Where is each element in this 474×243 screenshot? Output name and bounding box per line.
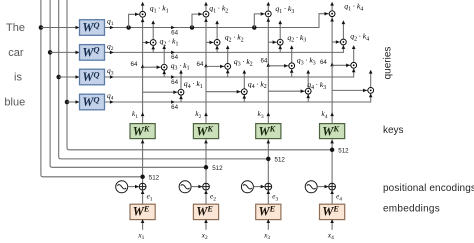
weight matrix box W^K 2 [193, 124, 218, 139]
wire output of q3·k2 upward [226, 45, 230, 63]
dot-product node q4·k1 [178, 89, 184, 95]
wire q3 stub into q3·k2 [226, 70, 230, 78]
wire output of q1·k2 upward [204, 2, 208, 11]
wire output of q2·k4 upward [342, 20, 346, 39]
positional encoding source 4 [305, 181, 317, 193]
wire q1 stub into q1·k2 [192, 12, 203, 27]
wire e4 from plus node up into W^K 4 [330, 139, 334, 183]
wire q3 stub into q3·k1 [162, 70, 166, 77]
dot-product node q4·k4 [368, 88, 374, 94]
wire k3 branch to q4·k3 [268, 89, 305, 93]
arrowhead on q3 row mid [171, 75, 175, 79]
wire q3 row input into W^Q [59, 75, 80, 79]
wire k4 branch to q4·k4 [332, 89, 367, 93]
wire output of q3·k1 upward [162, 45, 166, 64]
dot-product node q1·k1 [140, 11, 146, 17]
wire embedding bus e2 (left vertical + bend to column 2) [50, 0, 206, 167]
svg-text:64: 64 [171, 104, 178, 111]
wire positional encoding 4 into plus node [317, 185, 328, 189]
arrowhead on k1 line above W^K [141, 112, 145, 116]
svg-text:64: 64 [131, 61, 138, 68]
svg-text:64: 64 [320, 59, 327, 66]
wire q2 stub into q2·k2 [215, 46, 219, 53]
wire q4 stub into q4·k3 [306, 94, 310, 102]
positional encoding source 1 [116, 181, 128, 193]
wire x1 into W^E 1 [141, 219, 145, 230]
wire output of q1·k4 upward [330, 2, 334, 11]
svg-text:64: 64 [261, 58, 268, 65]
wire output of q2·k2 upward [215, 20, 219, 39]
wire q3 stub into q3·k3 [290, 69, 294, 77]
svg-text:blue: blue [4, 96, 25, 108]
wire embedding e1 from W^E into plus node [141, 190, 145, 204]
wire q2 stub into q2·k1 [151, 46, 155, 53]
wire output of q4·k1 upward [179, 70, 183, 89]
wire q1 stub into q1·k1 [129, 13, 140, 28]
wire k2 branch to q3·k2 [206, 65, 224, 69]
weight matrix box W^E 3 [256, 204, 281, 219]
dot-product node q2·k3 [277, 39, 283, 45]
adder node plus 2 [203, 183, 210, 190]
dot-product node q2·k4 [341, 39, 347, 45]
wire output of q2·k3 upward [278, 20, 282, 39]
dot-product node q3·k4 [351, 62, 357, 68]
dot-product node q1·k2 [203, 11, 209, 17]
svg-text:The: The [6, 22, 25, 34]
wire k2 column (W^K up to q1·k2) [204, 17, 208, 123]
adder node plus 1 [139, 183, 146, 190]
arrowhead on q1 row after W^Q [110, 26, 114, 30]
wire e2 from plus node up into W^K 2 [204, 139, 208, 183]
junction dot bus e1 to q1 row [39, 25, 44, 30]
junction dot bus e2 to q2 row [48, 50, 53, 55]
wire q4 stub into q4·k2 [243, 95, 247, 102]
wire embedding e2 from W^E into plus node [204, 190, 208, 204]
dot-product node q3·k2 [225, 64, 231, 70]
wire embedding bus e1 (left vertical + bend to column 1) [41, 0, 143, 177]
wire q1 stub into q1·k3 [254, 12, 265, 27]
arrowhead on q2 row after W^Q [110, 51, 114, 55]
wire x3 into W^E 3 [267, 219, 271, 230]
svg-text:positional encodings: positional encodings [383, 183, 474, 194]
svg-text:512: 512 [275, 157, 286, 164]
junction dot 512 bus column 1 [140, 175, 145, 180]
wire output of q1·k3 upward [267, 2, 271, 11]
wire embedding e4 from W^E into plus node [330, 190, 334, 204]
dot-product node q2·k1 [150, 40, 156, 46]
dot-product node q1·k4 [329, 11, 335, 17]
dot-product node q2·k2 [214, 40, 220, 46]
arrowhead on q4 row mid [171, 100, 175, 104]
svg-text:car: car [8, 47, 24, 59]
adder node plus 4 [329, 183, 336, 190]
arrowhead on k2 line mid [204, 64, 208, 68]
wire output of q4·k4 upward [369, 70, 373, 88]
svg-text:64: 64 [171, 29, 178, 36]
adder node plus 3 [265, 183, 272, 190]
wire k4 column (W^K up to q1·k4) [330, 17, 334, 124]
svg-text:keys: keys [383, 125, 404, 136]
wire output of q4·k2 upward [243, 70, 247, 89]
arrowhead on k1 line mid [141, 64, 145, 68]
weight matrix box W^E 2 [193, 204, 218, 219]
wire q2 row from W^Q across columns [105, 45, 346, 52]
wire q2 stub into q2·k3 [278, 45, 282, 52]
wire output of q2·k1 upward [151, 20, 155, 39]
svg-text:64: 64 [171, 79, 178, 86]
arrowhead on k2 line above W^K [204, 112, 208, 116]
wire k1 column (W^K up to q1·k1) [141, 18, 145, 124]
arrowhead on q3 row after W^Q [110, 75, 114, 79]
junction dot 512 bus column 2 [204, 165, 209, 170]
wire x4 into W^E 4 [330, 219, 334, 230]
wire q4 row input into W^Q [67, 100, 79, 104]
svg-text:embeddings: embeddings [383, 204, 440, 215]
wire k3 column (W^K up to q1·k3) [267, 17, 271, 123]
wire positional encoding 3 into plus node [253, 185, 264, 189]
wire e3 from plus node up into W^K 3 [267, 139, 271, 183]
positional encoding source 2 [179, 181, 191, 193]
wire q3 row from W^Q across columns [105, 68, 356, 77]
wire embedding bus e4 (left vertical + bend to column 4) [67, 0, 332, 150]
wire positional encoding 1 into plus node [128, 185, 139, 189]
svg-text:64: 64 [197, 61, 204, 68]
junction dot q1 row to q1·k3 stub [252, 25, 256, 30]
wire k1 branch to q3·k1 [143, 65, 161, 69]
wire q2 row input into W^Q [50, 51, 79, 55]
wire q4 stub into q4·k1 [179, 95, 183, 102]
wire k4 branch to q3·k4 [332, 64, 350, 68]
arrowhead on k3 line above W^K [267, 112, 271, 116]
wire k4 branch to q2·k4 [332, 40, 340, 44]
wire k3 branch to q2·k3 [268, 40, 277, 44]
positional encoding source 3 [241, 181, 253, 193]
weight matrix box W^K 1 [130, 124, 155, 139]
dot-product node q3·k3 [289, 63, 295, 69]
weight matrix box W^E 4 [320, 204, 345, 219]
arrowhead on q2 row mid [171, 51, 175, 55]
weight matrix box W^Q 1 [80, 20, 105, 36]
svg-text:queries: queries [383, 47, 394, 80]
junction dot 512 bus column 4 [330, 148, 335, 153]
wire k1 branch to q4·k1 [143, 90, 178, 94]
weight matrix box W^E 1 [130, 204, 155, 219]
arrowhead on k4 line above W^K [330, 112, 334, 116]
dot-product node q4·k3 [305, 88, 311, 94]
weight matrix box W^Q 4 [80, 94, 105, 110]
wire output of q3·k3 upward [290, 45, 294, 63]
junction dot q1 row to q1·k1 stub [126, 25, 131, 30]
wire output of q4·k3 upward [306, 70, 310, 88]
wire k2 branch to q4·k2 [206, 90, 241, 94]
wire q4 row from W^Q across columns [105, 94, 373, 103]
wire x2 into W^E 2 [204, 219, 208, 230]
arrowhead on k4 line mid [330, 62, 334, 66]
wire q1 row from W^Q across columns [105, 12, 329, 28]
wire output of q1·k1 upward [141, 2, 145, 11]
svg-text:512: 512 [212, 165, 223, 172]
junction dot bus e4 to q4 row [65, 100, 70, 105]
arrowhead on q4 row after W^Q [110, 100, 114, 104]
wire k2 branch to q2·k2 [206, 41, 214, 45]
wire k1 branch to q2·k1 [143, 41, 150, 45]
wire k3 branch to q3·k3 [268, 64, 288, 68]
svg-text:is: is [14, 71, 22, 83]
arrowhead on q1 row mid [171, 26, 175, 30]
wire embedding e3 from W^E into plus node [267, 190, 271, 204]
wire output of q3·k4 upward [352, 45, 356, 62]
weight matrix box W^K 4 [320, 124, 345, 139]
weight matrix box W^Q 2 [80, 45, 105, 61]
wire e1 from plus node up into W^K 1 [141, 139, 145, 183]
junction dot bus e3 to q3 row [56, 75, 61, 80]
svg-text:512: 512 [338, 147, 349, 154]
arrowhead on k3 line mid [267, 63, 271, 67]
weight matrix box W^K 3 [256, 124, 281, 139]
svg-text:512: 512 [149, 174, 160, 181]
wire embedding bus e3 (left vertical + bend to column 3) [59, 0, 269, 159]
weight matrix box W^Q 3 [80, 69, 105, 85]
dot-product node q1·k3 [265, 11, 271, 17]
junction dot q1 row to q1·k2 stub [190, 25, 195, 30]
wire positional encoding 2 into plus node [191, 185, 202, 189]
wire q1 row input into W^Q [41, 26, 79, 30]
junction dot 512 bus column 3 [266, 157, 271, 162]
dot-product node q4·k2 [241, 89, 247, 95]
dot-product node q3·k1 [161, 64, 167, 70]
